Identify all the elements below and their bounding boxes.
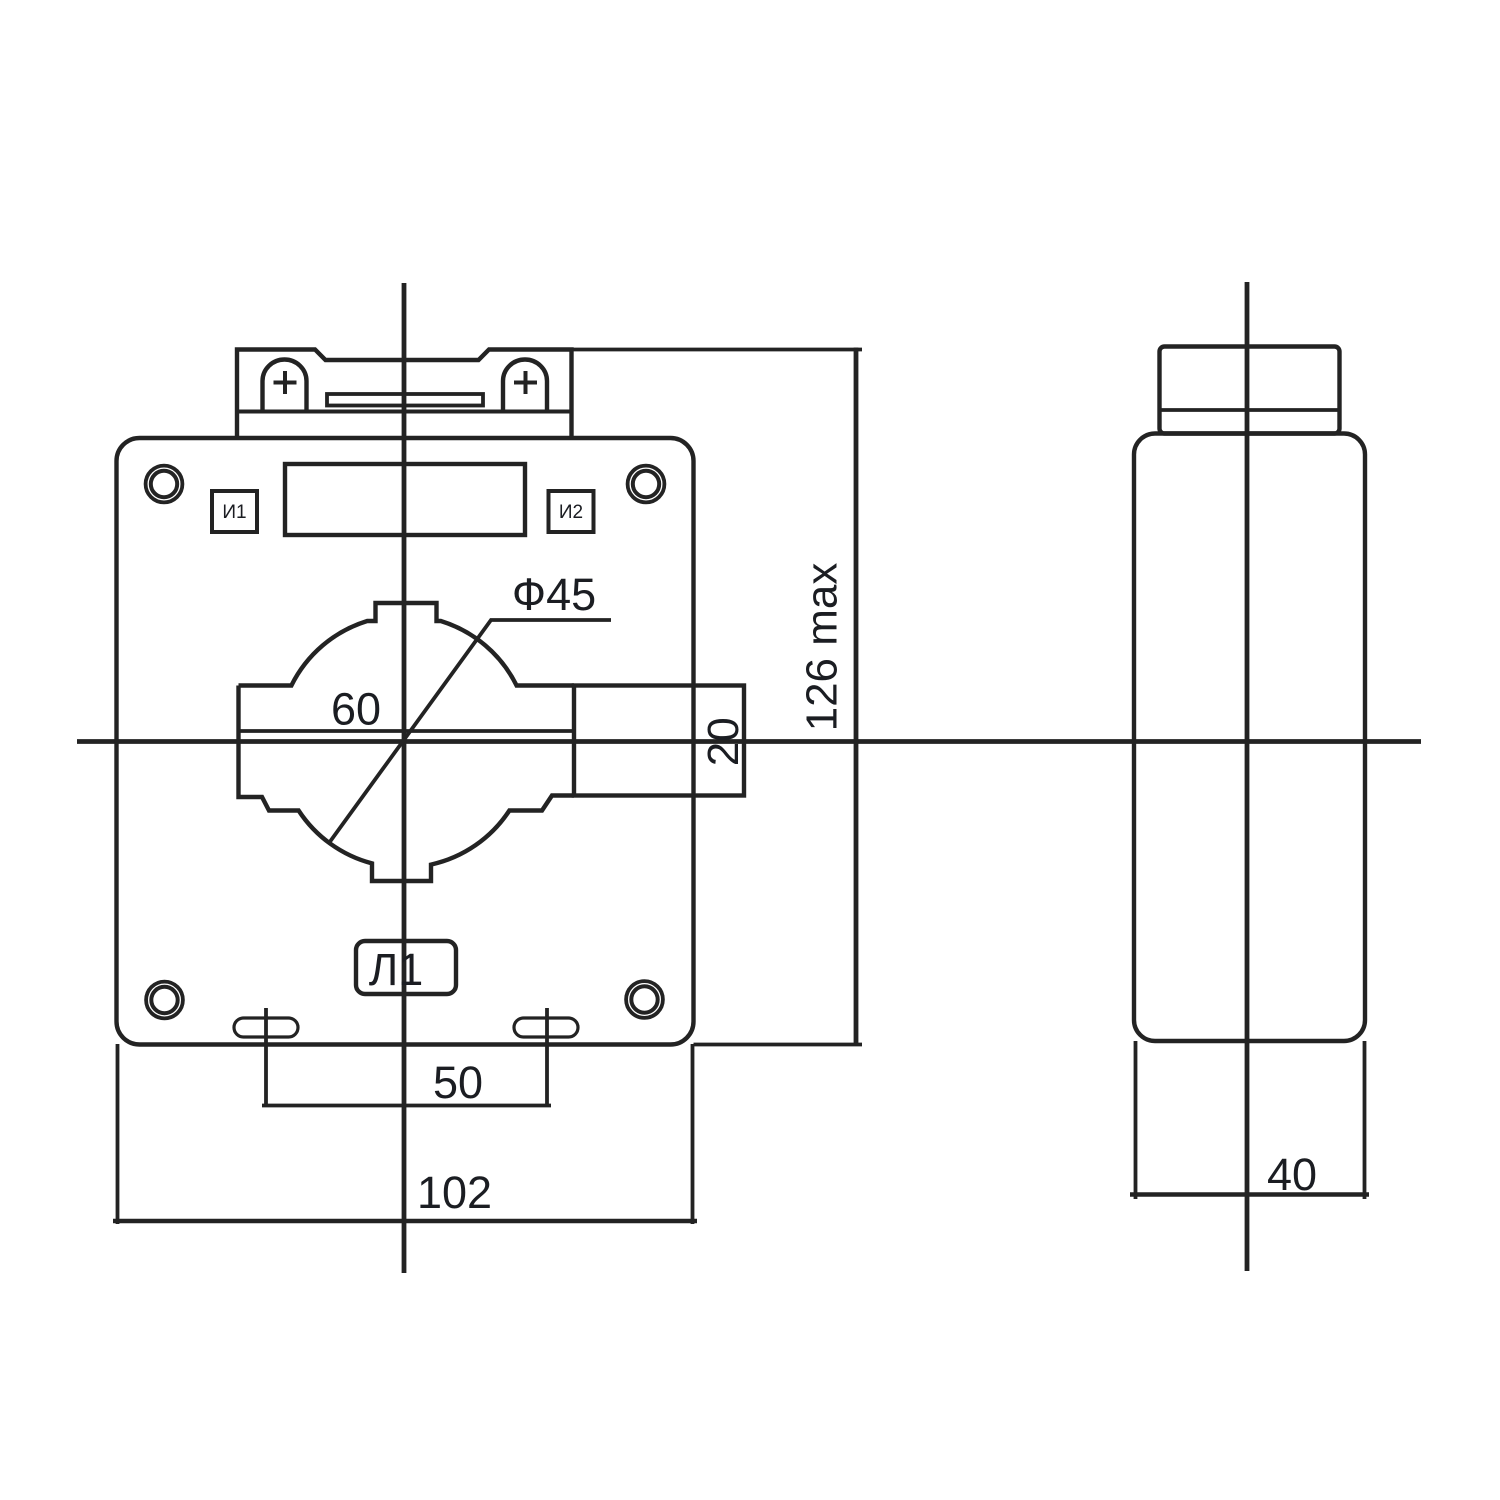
horizontal centerline (both views)	[77, 739, 1421, 744]
side view cap	[1160, 347, 1340, 434]
busbar rectangle	[574, 686, 744, 796]
vertical centerline front view	[402, 283, 407, 1273]
front body outline	[117, 438, 694, 1045]
extension lines 50	[266, 1008, 547, 1106]
screw cross left	[274, 371, 297, 394]
window width line 60	[239, 729, 575, 733]
svg-text:126 max: 126 max	[798, 563, 847, 732]
mounting slot right	[514, 1018, 578, 1037]
terminal label box I1	[212, 491, 257, 532]
svg-text:Л1: Л1	[369, 944, 424, 995]
bracket middle bar	[327, 394, 483, 406]
terminal label box I2	[549, 491, 594, 532]
dimension line 50	[262, 1104, 551, 1108]
screw cross right	[514, 371, 537, 394]
mounting bracket outline	[237, 350, 572, 439]
svg-text:20: 20	[699, 717, 748, 766]
svg-text:102: 102	[417, 1167, 492, 1218]
svg-text:60: 60	[331, 684, 381, 735]
bracket base line	[237, 410, 572, 414]
central aperture outline	[239, 603, 575, 881]
terminal screw right	[503, 360, 547, 412]
corner hole bottom-left	[146, 982, 183, 1019]
label box L1	[356, 941, 456, 994]
corner hole top-right	[628, 466, 665, 503]
extension lines 40	[1136, 1041, 1365, 1199]
side view body	[1134, 434, 1365, 1042]
side view cap divider	[1160, 408, 1340, 412]
svg-text:И2: И2	[559, 502, 583, 523]
extension line 126 top	[572, 348, 863, 352]
svg-text:И1: И1	[222, 502, 246, 523]
extension line 126 bottom	[694, 1043, 863, 1047]
dimension line 40	[1130, 1192, 1369, 1196]
corner hole top-left	[146, 466, 183, 503]
dimension line 126	[854, 348, 859, 1045]
svg-text:Ф45: Ф45	[512, 569, 596, 620]
terminal screw left	[263, 360, 307, 412]
svg-text:50: 50	[433, 1057, 483, 1108]
corner hole bottom-right	[626, 981, 663, 1018]
svg-text:40: 40	[1267, 1149, 1317, 1200]
nameplate window	[285, 464, 525, 535]
mounting slot left	[234, 1018, 298, 1037]
vertical centerline side view	[1245, 282, 1250, 1271]
extension lines 102	[118, 1044, 693, 1224]
diameter leader line	[329, 620, 611, 843]
dimension line 102	[113, 1219, 697, 1223]
